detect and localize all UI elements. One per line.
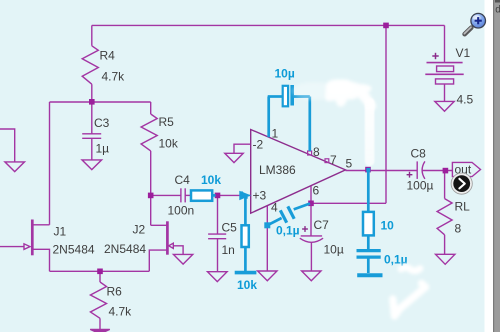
svg-text:-2: -2 [253,138,264,152]
right white gutter [485,0,494,332]
wire node to pot and pin 3 [218,194,251,196]
labels dark [53,46,474,319]
svg-text:8: 8 [313,145,320,159]
ground C7 [302,271,321,281]
svg-text:C7: C7 [314,218,330,232]
wire top rail [92,24,445,26]
ground C5 [208,272,228,282]
svg-text:J2: J2 [133,223,146,237]
plus sign V1 [432,53,438,59]
wire RL to ground [444,235,446,255]
wire RL drop [444,171,446,199]
svg-text:10k: 10k [201,173,221,187]
capacitor C3 [91,102,93,134]
wire pin2 stub [234,144,251,153]
svg-text:10: 10 [381,219,395,233]
labels cyan [201,67,408,293]
svg-text:R4: R4 [100,49,116,63]
cyan dot on output node [367,168,370,171]
wire pin6 row to supply riser [311,202,386,204]
wire R4 to node [91,84,93,102]
svg-text:4.7k: 4.7k [109,305,133,319]
resistor RL [437,199,452,235]
node source rail / R6 [97,269,103,275]
resistor 10k series box [191,190,212,200]
svg-text:1: 1 [272,127,279,141]
svg-text:10k: 10k [237,278,257,292]
pin 7 square [325,159,329,163]
transistor J2 [166,221,169,254]
out flag [452,162,480,176]
svg-text:100µ: 100µ [407,179,434,193]
right gray panel [493,0,500,332]
svg-text:C8: C8 [411,147,427,161]
svg-text:LM386: LM386 [259,163,296,177]
capacitor C8 [416,161,418,179]
node R5/C4 [148,193,154,199]
resistor 10 zobel [367,171,370,212]
wire R6 top [99,271,101,282]
potentiometer 10k [244,195,247,225]
wire output row [346,170,418,172]
ground C3 [82,160,102,170]
capacitor 10u pins 1-8 [268,95,283,98]
ground V1 [435,101,454,111]
wire rail y102 [50,101,151,103]
svg-text:0,1µ: 0,1µ [276,224,300,238]
plus sign C7 [302,226,308,232]
wire R4 top drop [91,25,93,45]
wire V1 drop [444,25,446,62]
wire left branch down [49,102,51,225]
resistor R5 [141,114,157,151]
ground pin2 [225,153,243,162]
svg-text:1µ: 1µ [96,142,110,156]
resistor R4 [82,46,98,84]
node pin6/C7 [308,201,314,207]
transistor J1 [31,220,34,256]
svg-text:10k: 10k [159,137,179,151]
wire R6 to ground [99,318,101,329]
ground RL [436,254,455,264]
svg-text:R5: R5 [159,115,175,129]
wire R5 to J2 drain [150,151,152,225]
svg-text:7: 7 [330,153,337,167]
svg-text:4.7k: 4.7k [102,70,126,84]
svg-text:J1: J1 [54,225,67,239]
wire bottom rail [50,270,150,272]
node top rail / riser [383,23,389,29]
node output/C8/RL [443,168,449,174]
wire left stub [0,129,15,162]
wire signal row to C4 [151,194,181,196]
op-amp U1 LM386 [251,130,346,214]
svg-text:100n: 100n [168,204,195,218]
svg-text:2N5484: 2N5484 [53,243,95,257]
pin 8 square [308,151,312,155]
svg-text:10µ: 10µ [324,243,344,257]
battery V1 [427,62,463,64]
cyan selected components [191,85,383,275]
capacitor C7 [310,203,312,235]
play circle icon [451,173,472,194]
junction node squares [89,23,448,275]
wire supply riser x386 [385,25,387,203]
capacitor 0,1u zobel [357,249,381,252]
white-out scribble lower [393,267,426,316]
node output/zobel [365,167,371,173]
svg-text:+3: +3 [253,189,267,203]
svg-text:V1: V1 [456,46,471,60]
resistor R6 [90,282,106,318]
svg-text:C5: C5 [222,221,238,235]
capacitor C4 [180,188,182,202]
svg-text:R6: R6 [107,285,123,299]
svg-text:10µ: 10µ [275,67,295,81]
svg-text:C3: C3 [94,116,110,130]
wire pin 6 down [310,186,312,203]
wire R5 top [150,102,152,114]
svg-text:C4: C4 [175,173,191,187]
svg-text:RL: RL [455,200,471,214]
svg-text:4: 4 [271,201,278,215]
svg-text:5: 5 [346,157,353,171]
potentiometer wiper arrow [240,192,249,199]
svg-text:6: 6 [313,184,320,198]
svg-text:8: 8 [455,222,462,236]
svg-text:d: d [495,5,500,16]
ground J2 gate [173,254,192,264]
ground pin4 [258,271,277,281]
ground R6 (cut at bottom) [90,329,110,332]
wire pin 4 down [266,206,268,271]
plus sign C8 [407,172,413,178]
svg-text:1n: 1n [222,243,235,257]
capacitor 0,1u diagonal [267,218,281,225]
node R4/C3/R5 [89,99,95,105]
svg-text:4.5: 4.5 [457,93,474,107]
svg-text:2N5484: 2N5484 [104,242,146,256]
node C4/C5 [215,193,221,199]
capacitor C5 [217,195,219,234]
ground left stub [5,162,25,172]
